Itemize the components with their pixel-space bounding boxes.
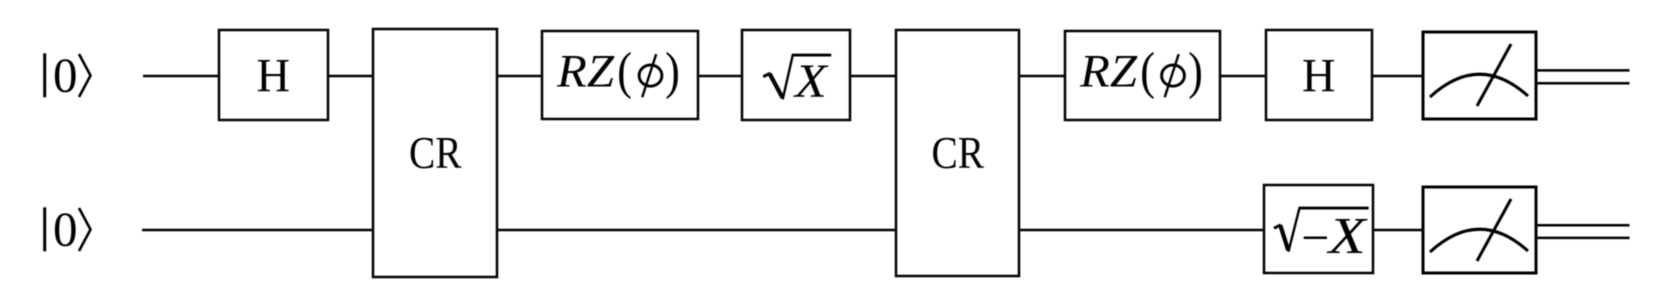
meter needle M1 [1477,44,1511,106]
classical wire c0 upper line [1536,69,1630,72]
gate sqrt(-X) [1264,185,1373,273]
wire q0 segment 5 [849,75,897,77]
svg-text:): ) [665,43,680,100]
radical of sqrt(X) [763,55,831,99]
qubit label |0> q1 [45,202,91,257]
svg-text:(: ( [1140,43,1155,100]
measurement M2 [1423,187,1536,273]
svg-text:X: X [1327,208,1369,265]
radical of sqrt(-X) [1274,208,1369,252]
svg-text:): ) [1188,43,1203,100]
svg-text:X: X [793,54,829,108]
meter needle M2 [1477,199,1511,261]
gate H1 [219,30,328,120]
wire q0 segment 3 [496,75,543,77]
gate sqrt(X) [742,30,850,120]
wire q0 segment 4 [697,75,743,77]
X of sqrt(X) [793,54,829,108]
X of sqrt(-X) [1327,208,1369,265]
svg-text:H: H [257,50,291,103]
wire q0 segment 7 [1219,75,1267,77]
wire q1 segment 2 [496,229,897,231]
wire q1 segment 4 [1372,229,1424,231]
wire q0 segment 8 [1371,75,1424,77]
measurement M1 [1423,32,1536,119]
wire q0 segment 1 [143,75,220,77]
svg-text:(: ( [617,43,632,100]
wire q0 segment 2 [327,75,374,77]
gate RZ(phi) 2 [1065,31,1220,120]
svg-text:CR: CR [409,127,462,178]
classical wire c1 upper line [1536,224,1630,227]
classical wire c0 lower line [1536,82,1630,85]
svg-text:RZ: RZ [1079,46,1138,98]
classical wire c1 lower line [1536,237,1630,240]
gate CR2 [896,30,1019,276]
meter arc M2 [1430,229,1528,252]
wire q0 segment 6 [1018,75,1066,77]
svg-text:CR: CR [932,127,985,178]
gate CR1 [373,29,497,277]
svg-text:0: 0 [53,48,78,103]
gate RZ(phi) 1 [542,31,698,119]
qubit label |0> q0 [45,48,91,103]
svg-text:0: 0 [53,202,78,257]
svg-text:−: − [1298,209,1332,265]
gate H2 [1266,30,1372,120]
meter arc M1 [1430,74,1528,97]
wire q1 segment 3 [1018,229,1265,231]
svg-text:RZ: RZ [556,46,615,98]
svg-text:H: H [1302,50,1336,103]
wire q1 segment 1 [142,229,374,231]
